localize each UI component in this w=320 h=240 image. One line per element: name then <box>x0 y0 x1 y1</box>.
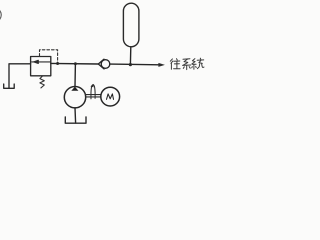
label 統 (system char 2) <box>192 58 204 69</box>
shaft rotation arrow <box>91 85 95 99</box>
wire: main line (check valve to arrow) <box>110 63 159 66</box>
tank (pump suction) <box>65 117 86 123</box>
arrow to system <box>158 63 165 67</box>
pump P (circle) <box>64 87 85 108</box>
wire: pump suction line to tank <box>74 108 77 123</box>
node: accumulator junction <box>129 63 132 66</box>
check valve (free flow left to right) <box>98 59 109 69</box>
relief valve flow-path arrow <box>32 60 51 63</box>
node: pilot tap junction <box>56 62 59 65</box>
motor label "M" <box>107 94 114 100</box>
wire: accumulator stem <box>129 47 131 65</box>
electric motor M (circle) <box>101 87 120 106</box>
pump outlet triangle <box>71 87 78 91</box>
relief valve spring <box>40 76 44 88</box>
wire: pump outlet riser <box>74 64 76 87</box>
label 往 (to) <box>170 59 180 70</box>
wire: main pressure line (valve to check valve seat) <box>51 62 99 65</box>
label 系 (system char 1) <box>183 59 191 70</box>
relief valve body <box>31 57 51 76</box>
drive shaft (pump to motor) <box>86 95 101 97</box>
wire: relief valve drain line to tank <box>9 64 31 88</box>
accumulator <box>123 3 138 47</box>
tank (left, relief valve drain) <box>4 84 15 88</box>
pilot line (dashed) <box>40 50 58 64</box>
partial figure label ")" at left edge <box>0 10 1 20</box>
node: pump riser junction <box>74 62 77 65</box>
